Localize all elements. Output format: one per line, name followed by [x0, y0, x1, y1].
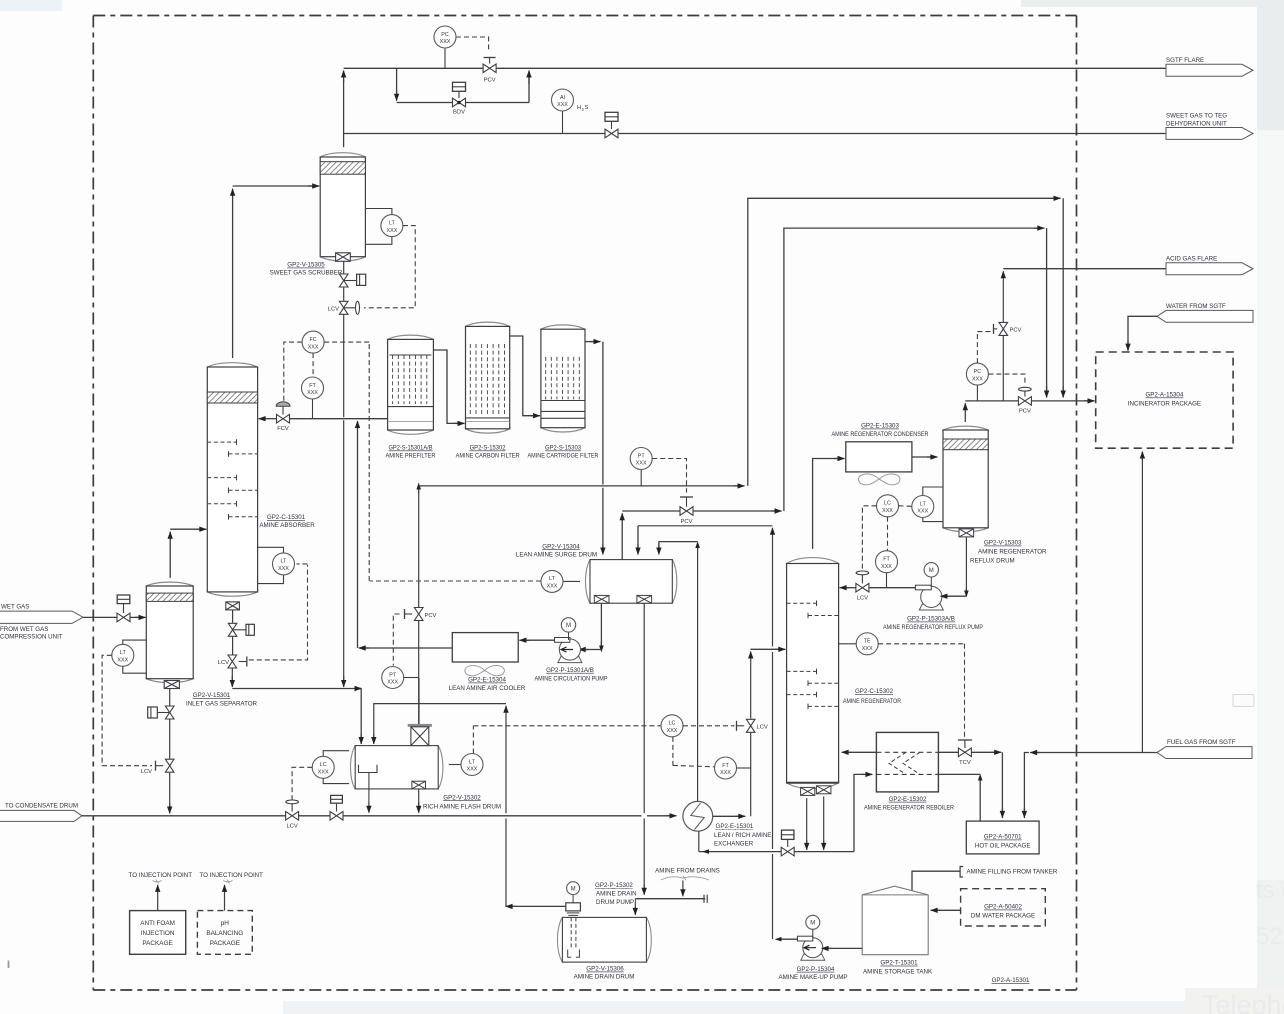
- wire lean amine return into surge drum: [659, 542, 698, 549]
- pump GP2-P-15302 amine drain drum pump: [572, 895, 574, 903]
- nozzle xbox reflux drum bottom: [959, 529, 974, 537]
- svg-text:LT: LT: [389, 220, 396, 226]
- instrument LT separator: [123, 640, 147, 644]
- wire fuel gas branch to incinerator: [1141, 456, 1143, 753]
- svg-text:TO INJECTION POINT: TO INJECTION POINT: [129, 872, 193, 879]
- wire surge drum right nozzle to drain header: [643, 603, 645, 813]
- vessel GP2-S-15302 amine carbon filter: [466, 322, 510, 433]
- wire regenerator bottoms header: [806, 798, 808, 843]
- wire surge drum to circulation pump: [600, 603, 602, 649]
- vessel GP2-S-15301A/B amine prefilter: [388, 335, 434, 434]
- wire amine filling from tanker: [960, 867, 963, 878]
- wire reflux drum overhead: [964, 406, 966, 422]
- svg-text:FT: FT: [722, 763, 729, 769]
- wire reboiler hot oil return via TCV: [938, 751, 958, 753]
- svg-text:GP2-V-15304: GP2-V-15304: [542, 543, 580, 550]
- svg-text:LT: LT: [281, 559, 288, 565]
- wire LT dashed to FC: [370, 580, 541, 582]
- valve scrubber bottom xbox: [336, 253, 351, 261]
- valve scrubber drain globe: [343, 261, 345, 273]
- svg-text:PCV: PCV: [1019, 409, 1031, 415]
- wire DM water to tank: [936, 909, 961, 911]
- vessel GP2-V-15304 lean amine surge drum: [586, 560, 677, 604]
- bracket amine from drains: [661, 877, 709, 880]
- svg-text:S: S: [585, 105, 589, 111]
- wire flash drum vapor line to incinerator: [418, 488, 420, 494]
- svg-text:GP2-T-15301: GP2-T-15301: [880, 960, 918, 967]
- wire exchanger rich outlet riser to regenerator: [713, 815, 740, 817]
- svg-text:DM WATER PACKAGE: DM WATER PACKAGE: [971, 913, 1035, 920]
- wire BDV bypass: [396, 68, 398, 95]
- svg-text:AMINE REGENERATOR: AMINE REGENERATOR: [843, 698, 901, 705]
- svg-text:FROM WET GAS: FROM WET GAS: [0, 626, 48, 633]
- wire LT to LCV dashed absorber: [249, 565, 308, 660]
- svg-text:AMINE FROM DRAINS: AMINE FROM DRAINS: [655, 868, 720, 875]
- svg-text:AMINE CARBON FILTER: AMINE CARBON FILTER: [456, 453, 520, 460]
- wire condenser to reflux drum: [912, 456, 932, 458]
- instrument PT flash vapor: [393, 614, 399, 666]
- instrument FT rich amine: [715, 757, 737, 779]
- wire makeup amine into surge drum: [637, 526, 639, 549]
- wire PC dashed to incinerator PCV: [988, 374, 1025, 384]
- svg-text:AMINE REGENERATOR: AMINE REGENERATOR: [978, 549, 1047, 556]
- wire scrubber overhead riser: [343, 134, 345, 148]
- wire lean amine to absorber with FCV: [290, 418, 388, 420]
- svg-text:ACID GAS FLARE: ACID GAS FLARE: [1166, 255, 1217, 262]
- svg-text:GP2-P-15302: GP2-P-15302: [595, 882, 633, 889]
- svg-text:PC: PC: [441, 32, 449, 38]
- wire sweet gas to TEG header: [344, 133, 1166, 135]
- svg-text:BALANCING: BALANCING: [206, 930, 243, 937]
- svg-text:WET GAS: WET GAS: [1, 604, 29, 611]
- svg-text:COMPRESSION UNIT: COMPRESSION UNIT: [0, 634, 63, 641]
- svg-text:GP2-P-15303A/B: GP2-P-15303A/B: [907, 616, 955, 623]
- svg-text:AMINE FILLING FROM TANKER: AMINE FILLING FROM TANKER: [967, 868, 1058, 875]
- vessel GP2-V-15301 inlet gas separator: [146, 582, 193, 682]
- flag SGTF FLARE: [1166, 64, 1253, 76]
- svg-text:M: M: [810, 921, 815, 927]
- svg-text:BDV: BDV: [453, 110, 465, 116]
- svg-text:52: 52: [1256, 923, 1283, 950]
- wire PC dashed to flare PCV: [976, 332, 978, 364]
- svg-text:FUEL GAS FROM SGTF: FUEL GAS FROM SGTF: [1167, 739, 1236, 746]
- svg-text:SWEET GAS TO TEG: SWEET GAS TO TEG: [1166, 113, 1227, 120]
- svg-text:GP2-A-15301: GP2-A-15301: [992, 977, 1030, 984]
- nozzle xbox flash drum bottom: [412, 781, 426, 789]
- svg-text:PCV: PCV: [484, 78, 496, 84]
- wire acid gas flare line: [1002, 274, 1004, 322]
- instrument TE regenerator: [839, 643, 857, 645]
- svg-text:PT: PT: [389, 672, 397, 678]
- svg-text:XXX: XXX: [636, 461, 647, 467]
- flash drum vapor nozzle: [418, 678, 420, 724]
- flag ACID GAS FLARE: [1166, 263, 1253, 275]
- valve FCV lean amine: [282, 406, 284, 415]
- valve BDV: [458, 91, 460, 98]
- svg-text:PCV: PCV: [1010, 328, 1022, 334]
- svg-text:GP2-V-15306: GP2-V-15306: [586, 966, 624, 973]
- package anti foam injection: [130, 911, 186, 955]
- wire sweet gas flare header: [344, 67, 1166, 69]
- svg-text:EXCHANGER: EXCHANGER: [714, 840, 754, 847]
- wire injection 2: [224, 888, 226, 911]
- wire filter3 outlet to surge drum: [585, 341, 595, 343]
- valve separator bottom xbox: [164, 681, 179, 689]
- wire filter1 to filter2: [433, 350, 459, 423]
- flag WET GAS feed: [0, 611, 83, 623]
- wire reflux drum to pump suction: [965, 537, 967, 596]
- svg-text:XXX: XXX: [308, 344, 319, 350]
- svg-text:FT: FT: [883, 557, 890, 563]
- instrument PC (flare): [444, 48, 446, 68]
- valve LCV reflux: [861, 573, 863, 584]
- svg-text:HOT OIL PACKAGE: HOT OIL PACKAGE: [975, 843, 1031, 850]
- wire wet gas feed: [83, 616, 117, 618]
- svg-text:PC: PC: [974, 369, 982, 375]
- svg-text:AMINE REGENERATOR CONDENSER: AMINE REGENERATOR CONDENSER: [832, 431, 929, 438]
- svg-text:XXX: XXX: [440, 39, 451, 45]
- wire flash drum weir to condensate: [368, 773, 370, 807]
- svg-text:XXX: XXX: [917, 509, 928, 515]
- valve PCV incinerator feed: [1024, 389, 1026, 396]
- svg-text:GP2-S-15303: GP2-S-15303: [545, 445, 582, 452]
- svg-text:WATER FROM SGTF: WATER FROM SGTF: [1166, 303, 1226, 310]
- svg-text:LT: LT: [549, 576, 556, 582]
- nozzle xbox surge drum right: [637, 595, 652, 603]
- wire scrubber drain down to flash drum feed: [343, 315, 345, 417]
- svg-text:RICH AMINE FLASH DRUM: RICH AMINE FLASH DRUM: [423, 804, 501, 811]
- svg-text:FC: FC: [310, 337, 317, 343]
- valve PCV flare line: [489, 58, 491, 64]
- flag SWEET GAS TO TEG DEHYDRATION UNIT: [1166, 128, 1253, 140]
- svg-text:LCV: LCV: [857, 596, 868, 602]
- wire separator drain to condensate header: [169, 773, 171, 808]
- svg-text:GP2-V-15302: GP2-V-15302: [443, 794, 481, 801]
- wire reflux line to regenerator: [845, 587, 856, 589]
- svg-text:GP2-E-15303: GP2-E-15303: [861, 423, 899, 430]
- wire water to incinerator: [1128, 316, 1157, 345]
- svg-text:AMINE ABSORBER: AMINE ABSORBER: [259, 522, 315, 529]
- wire surge drum vapor line to incinerator: [621, 517, 623, 560]
- wire incinerator feed header: [970, 400, 1019, 402]
- wire TE dashed to TCV: [878, 643, 964, 645]
- instrument PC acid gas: [976, 385, 978, 401]
- svg-text:GP2-S-15302: GP2-S-15302: [470, 445, 507, 452]
- wire filter2 to filter3: [510, 336, 535, 416]
- instrument LT reflux drum: [923, 487, 943, 496]
- svg-text:XXX: XXX: [862, 646, 873, 652]
- wire drain pump discharge: [512, 905, 566, 907]
- background ghost strips: [0, 0, 62, 11]
- svg-text:ts e: ts e: [1256, 877, 1284, 904]
- svg-text:GP2-C-15301: GP2-C-15301: [267, 514, 306, 521]
- wire flash drum bottoms to exchanger: [418, 789, 420, 806]
- flag WATER FROM SGTF: [1157, 310, 1253, 322]
- battery limit border: [93, 16, 1076, 991]
- svg-text:GP2-P-15301A/B: GP2-P-15301A/B: [546, 667, 594, 674]
- heat-exchanger GP2-E-15303 regenerator condenser: [846, 442, 912, 472]
- wire fuel gas line: [1036, 752, 1157, 754]
- valve absorber bottom xbox: [226, 602, 240, 610]
- vessel GP2-S-15303 amine cartridge filter: [541, 325, 585, 432]
- svg-text:GP2-C-15302: GP2-C-15302: [855, 688, 894, 695]
- wire absorber overhead to scrubber: [232, 192, 234, 358]
- wire separator overhead to absorber: [169, 535, 171, 578]
- flag FUEL GAS FROM SGTF: [1157, 747, 1252, 759]
- svg-text:TO INJECTION POINT: TO INJECTION POINT: [199, 872, 263, 879]
- vessel GP2-V-15305 sweet gas scrubber: [320, 153, 365, 261]
- wire tank to make-up pump: [827, 947, 862, 949]
- valve PCV flash vapor: [418, 494, 420, 608]
- svg-text:LCV: LCV: [757, 725, 768, 731]
- instrument LT surge drum: [563, 580, 580, 582]
- svg-text:LCV: LCV: [218, 660, 229, 666]
- svg-text:XXX: XXX: [117, 658, 128, 664]
- svg-text:XXX: XXX: [882, 508, 893, 514]
- instrument LC rich amine letdown: [661, 715, 683, 737]
- wire LT dashed to LC and LCV rich amine: [472, 726, 474, 754]
- wire regenerator overhead to condenser: [813, 459, 839, 549]
- valve on sweet gas line: [611, 121, 613, 129]
- svg-text:FT: FT: [309, 383, 316, 389]
- wire LT to LCV dashed separator: [102, 655, 152, 765]
- svg-text:INLET GAS SEPARATOR: INLET GAS SEPARATOR: [186, 701, 258, 708]
- wire air cooler outlet riser: [364, 647, 452, 649]
- instrument FT lean amine: [312, 399, 314, 419]
- svg-text:GP2-P-15304: GP2-P-15304: [797, 966, 835, 973]
- svg-text:LEAN / RICH AMINE: LEAN / RICH AMINE: [714, 832, 771, 839]
- wire reboiler vapor return to regenerator: [847, 751, 876, 753]
- svg-text:XXX: XXX: [467, 767, 478, 773]
- package GP2-A-50701 hot oil: [966, 821, 1039, 854]
- svg-text:INJECTION: INJECTION: [141, 930, 175, 937]
- valve lean amine from regenerator: [787, 839, 789, 847]
- svg-text:DEHYDRATION UNIT: DEHYDRATION UNIT: [1166, 120, 1227, 127]
- svg-text:AMINE CIRCULATION PUMP: AMINE CIRCULATION PUMP: [535, 675, 608, 682]
- svg-text:XXX: XXX: [307, 390, 318, 396]
- svg-text:LC: LC: [884, 501, 891, 507]
- svg-text:XXX: XXX: [387, 228, 398, 234]
- valve LCV rich amine: [746, 719, 755, 732]
- svg-text:ANTI FOAM: ANTI FOAM: [140, 920, 175, 927]
- svg-text:M: M: [571, 886, 576, 892]
- svg-text:LCV: LCV: [328, 307, 339, 313]
- svg-text:AMINE DRAIN DRUM: AMINE DRAIN DRUM: [574, 974, 635, 981]
- svg-text:GP2-V-15305: GP2-V-15305: [287, 262, 325, 269]
- instrument LT flash drum: [449, 764, 461, 766]
- instrument LT absorber: [258, 547, 284, 553]
- valve condensate globe: [336, 803, 338, 811]
- nozzle xbox surge drum left: [594, 595, 609, 603]
- heat-exchanger GP2-E-15304 lean amine air cooler: [452, 633, 518, 662]
- svg-text:TE: TE: [864, 639, 871, 645]
- tank GP2-T-15301 amine storage tank: [862, 886, 928, 955]
- svg-text:XXX: XXX: [720, 770, 731, 776]
- svg-text:GP2-A-50701: GP2-A-50701: [984, 834, 1022, 841]
- svg-text:PCV: PCV: [681, 519, 693, 525]
- svg-text:PACKAGE: PACKAGE: [210, 940, 240, 947]
- instrument LT scrubber: [365, 209, 392, 215]
- svg-text:AMINE REGENERATOR REBOILER: AMINE REGENERATOR REBOILER: [864, 805, 954, 812]
- svg-text:AI: AI: [560, 95, 565, 101]
- svg-text:PCV: PCV: [425, 613, 437, 619]
- svg-text:pH: pH: [221, 920, 230, 927]
- svg-text:XXX: XXX: [557, 102, 568, 108]
- valve LCV absorber bottoms: [232, 637, 234, 655]
- valve absorber bottoms globe: [232, 610, 234, 623]
- svg-text:FCV: FCV: [277, 426, 289, 432]
- package pH balancing dashed box: [197, 911, 252, 955]
- instrument AI H2S: [562, 111, 564, 134]
- wire drain pump return to flash drum: [505, 819, 507, 907]
- package GP2-A-50402 DM water dashed box: [961, 889, 1046, 926]
- svg-text:LCV: LCV: [286, 824, 297, 830]
- svg-text:LCV: LCV: [141, 769, 152, 775]
- valve LCV condensate: [291, 802, 293, 812]
- valve separator drain globe: [169, 689, 171, 706]
- valve TCV hot oil: [958, 748, 971, 757]
- valve PCV surge vapor: [686, 497, 688, 507]
- svg-text:AMINE DRAIN: AMINE DRAIN: [596, 891, 637, 898]
- wire drain header: [635, 898, 705, 900]
- svg-text:LT: LT: [469, 759, 476, 765]
- svg-text:M: M: [929, 568, 934, 574]
- pump GP2-P-15303A/B reflux pump: [919, 604, 943, 610]
- svg-text:XXX: XXX: [278, 566, 289, 572]
- svg-text:TO CONDENSATE DRUM: TO CONDENSATE DRUM: [5, 803, 78, 810]
- svg-text:DRUM PUMP: DRUM PUMP: [596, 899, 634, 906]
- valve LCV separator drain: [169, 720, 171, 759]
- svg-text:GP2-V-15303: GP2-V-15303: [984, 540, 1022, 547]
- wire absorber bottoms to flash drum: [231, 669, 233, 683]
- svg-text:INCINERATOR PACKAGE: INCINERATOR PACKAGE: [1128, 401, 1201, 408]
- instrument LC reflux drum: [877, 495, 899, 517]
- svg-text:AMINE STORAGE TANK: AMINE STORAGE TANK: [863, 968, 933, 975]
- instrument FT reflux: [876, 551, 898, 573]
- svg-text:SGTF FLARE: SGTF FLARE: [1166, 57, 1204, 64]
- svg-text:GP2-E-15302: GP2-E-15302: [889, 796, 927, 803]
- regenerator trays: [787, 602, 817, 604]
- nozzle xbox regenerator bottom left: [801, 787, 815, 795]
- nozzle xbox regenerator bottom right: [816, 786, 831, 794]
- svg-text:GP2-V-15301: GP2-V-15301: [193, 692, 231, 699]
- svg-text:LEAN AMINE AIR COOLER: LEAN AMINE AIR COOLER: [449, 685, 526, 692]
- package GP2-A-15304 incinerator dashed box: [1096, 352, 1233, 448]
- valve PCV acid gas flare: [1002, 336, 1004, 401]
- wire lean riser to reboiler: [854, 774, 864, 851]
- svg-text:AMINE MAKE-UP PUMP: AMINE MAKE-UP PUMP: [779, 974, 848, 981]
- flash drum weir: [359, 765, 378, 773]
- svg-text:LC: LC: [320, 762, 327, 768]
- wire lean amine up to exchanger: [698, 831, 700, 851]
- svg-text:GP2-E-15304: GP2-E-15304: [468, 677, 506, 684]
- svg-text:LT: LT: [120, 650, 127, 656]
- svg-text:LC: LC: [669, 721, 676, 727]
- svg-text:XXX: XXX: [547, 584, 558, 590]
- svg-text:XXX: XXX: [318, 770, 329, 776]
- heat-exchanger GP2-E-15302 regenerator reboiler: [876, 732, 938, 792]
- svg-text:XXX: XXX: [387, 680, 398, 686]
- vessel GP2-V-15303 reflux drum: [943, 426, 988, 532]
- vessel GP2-V-15302 rich amine flash drum: [350, 746, 442, 789]
- wire drain header into drain drum: [634, 899, 636, 911]
- wire amine from drains to header: [682, 881, 684, 894]
- wire pump to air cooler: [525, 639, 555, 641]
- wire LT to LCV dashed: [364, 226, 415, 308]
- svg-text:AMINE REGENERATOR REFLUX PUMP: AMINE REGENERATOR REFLUX PUMP: [883, 624, 983, 631]
- vessel GP2-C-15302 amine regenerator: [787, 558, 839, 789]
- svg-text:Telepho: Telepho: [1202, 990, 1284, 1014]
- heat-exchanger GP2-E-15301 lean/rich amine exchanger: [683, 801, 713, 831]
- svg-text:LEAN AMINE SURGE DRUM: LEAN AMINE SURGE DRUM: [516, 551, 597, 558]
- svg-text:XXX: XXX: [667, 728, 678, 734]
- wire condensate header / rich amine to exchanger: [82, 815, 286, 817]
- wire PCV down to flash drum nozzle: [418, 621, 420, 678]
- svg-text:PT: PT: [638, 453, 646, 459]
- valve LCV scrubber: [343, 288, 345, 301]
- svg-text:XXX: XXX: [881, 564, 892, 570]
- svg-text:AMINE PREFILTER: AMINE PREFILTER: [386, 453, 436, 460]
- pump GP2-P-15301A/B amine circulation pump: [558, 657, 582, 663]
- instrument FC lean amine: [312, 353, 314, 377]
- svg-text:XXX: XXX: [972, 376, 983, 382]
- svg-text:AMINE CARTRIDGE FILTER: AMINE CARTRIDGE FILTER: [528, 453, 599, 460]
- wire hot oil supply to reboiler: [979, 778, 981, 821]
- wire lean amine exchanger to surge drum: [697, 545, 699, 801]
- svg-text:GP2-E-15301: GP2-E-15301: [716, 823, 754, 830]
- svg-text:M: M: [566, 623, 571, 629]
- svg-text:GP2-A-50402: GP2-A-50402: [984, 904, 1022, 911]
- svg-text:TCV: TCV: [959, 760, 971, 766]
- absorber trays: [207, 441, 236, 443]
- wire injection 1: [157, 888, 159, 911]
- svg-text:PACKAGE: PACKAGE: [142, 940, 172, 947]
- pump GP2-P-15304 amine make-up pump: [801, 954, 825, 960]
- vessel GP2-C-15301 amine absorber: [207, 363, 257, 596]
- instrument PT filter outlet line: [640, 470, 642, 486]
- svg-text:SWEET GAS SCRUBBER: SWEET GAS SCRUBBER: [270, 269, 343, 276]
- svg-text:GP2-S-15301A/B: GP2-S-15301A/B: [389, 445, 433, 452]
- valve wet gas inlet: [123, 604, 125, 613]
- instrument LC flash drum: [323, 751, 349, 757]
- svg-text:REFLUX DRUM: REFLUX DRUM: [970, 558, 1015, 565]
- svg-text:LT: LT: [920, 501, 927, 507]
- vessel GP2-V-15306 amine drain drum: [557, 917, 651, 962]
- wire make-up pump discharge riser: [778, 938, 797, 940]
- wire LC dashed to condensate LCV: [292, 767, 312, 799]
- svg-text:GP2-A-15304: GP2-A-15304: [1145, 392, 1183, 399]
